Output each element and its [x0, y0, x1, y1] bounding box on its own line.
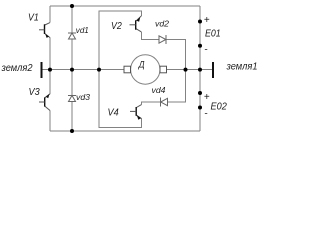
- wire top rail: [50, 5, 200, 7]
- diode vd3: [68, 96, 76, 102]
- diode vd1: [68, 33, 76, 39]
- transistor V1: [39, 23, 50, 38]
- svg-text:V1: V1: [28, 12, 39, 23]
- svg-text:V4: V4: [108, 108, 120, 119]
- ground terminal bar земля2: [41, 62, 43, 78]
- wire V2 emitter loop: [99, 11, 141, 70]
- svg-text:земля2: земля2: [1, 63, 33, 74]
- transistor V3: [39, 94, 50, 111]
- wire bottom rail: [50, 130, 200, 132]
- wire left rail V1 emitter to middle: [49, 38, 51, 70]
- junction dot middle V1: [48, 68, 52, 72]
- junction dot right node motor line: [184, 68, 188, 72]
- wire motor right to земля1: [167, 69, 214, 71]
- svg-text:земля1: земля1: [226, 61, 258, 72]
- wire V3 collector to bottom: [49, 111, 51, 132]
- wire E source rail right: [199, 6, 201, 131]
- wire vd1 branch: [71, 6, 73, 33]
- wire vd2 to right node: [166, 40, 186, 70]
- svg-text:E01: E01: [205, 28, 221, 39]
- terminal dot E02 plus: [198, 91, 202, 95]
- wire middle rail (земля2 to motor): [42, 69, 125, 71]
- svg-text:vd4: vd4: [152, 85, 166, 95]
- terminal dot E01 minus: [198, 44, 202, 48]
- junction dot middle V2 loop: [97, 68, 101, 72]
- svg-text:+: +: [204, 92, 210, 103]
- transistor V2: [130, 16, 142, 32]
- motor Д circle: [131, 55, 160, 84]
- diode vd4: [161, 98, 168, 107]
- wire vd4 to V4 collector: [142, 102, 161, 105]
- junction dot bottom vd3: [70, 129, 74, 133]
- junction dot E rail motor line: [198, 68, 202, 72]
- terminal dot E02 minus: [198, 106, 202, 110]
- svg-text:V2: V2: [111, 21, 122, 32]
- junction dot middle vd1/vd3: [70, 68, 74, 72]
- svg-text:-: -: [204, 44, 208, 55]
- wire V2 collector to vd2: [141, 32, 158, 40]
- diode vd2: [159, 35, 166, 44]
- motor left brush square: [124, 66, 131, 73]
- wire right node down to vd4: [167, 70, 186, 102]
- svg-text:+: +: [204, 15, 210, 26]
- svg-text:E02: E02: [211, 102, 228, 113]
- svg-text:vd2: vd2: [155, 18, 169, 28]
- svg-text:vd3: vd3: [76, 92, 90, 102]
- wire V4 emitter loop: [99, 70, 142, 128]
- junction dot top vd1: [70, 4, 74, 8]
- svg-text:vd1: vd1: [76, 25, 89, 35]
- svg-text:Д: Д: [138, 60, 145, 70]
- wire V3 emitter from middle: [49, 70, 51, 94]
- ground terminal bar земля1: [212, 62, 214, 78]
- terminal dot E01 plus: [198, 20, 202, 24]
- svg-text:V3: V3: [29, 87, 41, 98]
- wire left rail V1 collector: [49, 6, 51, 23]
- svg-text:-: -: [204, 109, 208, 120]
- transistor V4: [130, 105, 142, 120]
- wire vd3 branch: [71, 70, 73, 96]
- motor right brush square: [160, 66, 167, 73]
